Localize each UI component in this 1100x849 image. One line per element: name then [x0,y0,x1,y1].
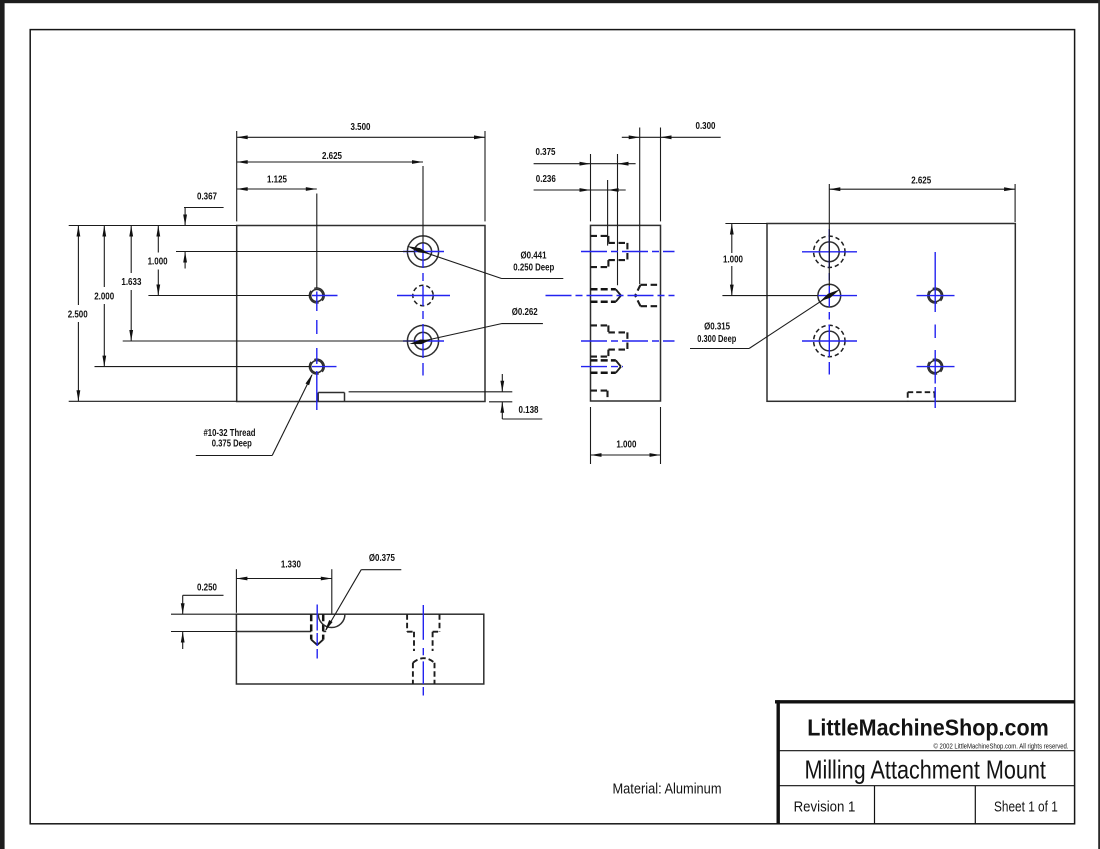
extension line 2.625 right edge (back) [1014,184,1016,222]
dimension 0.236 side [534,174,626,192]
centerline C1R2 horizontal [818,295,857,297]
centerline column A vertical [316,292,318,411]
extension line side left edge [590,154,592,221]
leader Ø0.315 [690,289,840,348]
centerline A4 horizontal [312,366,337,368]
counterbore hole B3 (front) [407,325,438,356]
extension line back top edge [725,223,767,225]
extension line 3.500 left [236,131,238,221]
page top black bar [0,0,1100,3]
svg-text:1.000: 1.000 [616,440,636,451]
leader Ø0.441 [407,246,563,279]
step edge line (bottom view) [236,631,326,633]
svg-text:Material: Aluminum: Material: Aluminum [613,782,722,798]
extension line row3 [123,340,415,342]
dimension 1.125 [237,175,317,191]
svg-text:Revision 1: Revision 1 [794,800,856,816]
svg-text:0.375: 0.375 [536,147,556,158]
svg-text:Sheet 1 of 1: Sheet 1 of 1 [994,800,1058,816]
svg-text:2.000: 2.000 [94,291,114,302]
extension line 1.330 right [331,569,333,614]
dimension 1.330 [236,560,331,581]
extension line 1.125 col A [316,194,318,289]
title block cell divider a [874,786,876,824]
extension line 0.250 top [171,613,236,615]
svg-text:1.330: 1.330 [281,560,301,571]
dimension 1.000 side [591,407,661,464]
svg-text:1.125: 1.125 [267,175,287,186]
centerline C2R2 horizontal [917,295,955,297]
extension line 0.250 step [171,631,236,633]
threaded hole C2R4 back [929,361,941,373]
svg-text:0.375 Deep: 0.375 Deep [212,439,252,450]
svg-text:1.633: 1.633 [121,277,141,288]
extension line bottom edge left [69,400,237,402]
bottom view outline [236,614,483,684]
leader Ø0.262 [409,307,543,344]
svg-text:0.138: 0.138 [519,405,539,416]
dimension 0.250 [181,583,224,650]
extension line row2 [148,295,310,297]
hidden step box (back) [908,392,935,401]
centerline C2R4 horizontal [917,366,955,368]
dimension 0.367 [183,191,223,268]
centerline side row2 [546,295,675,297]
threaded hole A2 (front) [311,289,323,301]
centerline C1R3 horizontal [802,340,857,342]
svg-text:1.000: 1.000 [148,257,168,268]
extension line top edge left [69,225,237,227]
svg-text:3.500: 3.500 [351,122,371,133]
centerline C1R1 horizontal [802,251,857,253]
centerline B3 horizontal [403,340,444,342]
centerline bottom colA vertical [316,605,318,659]
svg-text:1.000: 1.000 [723,255,743,266]
dimension 1.000 front [148,226,168,296]
hidden hole B2 dashed circle (front) [413,285,433,305]
svg-text:© 2002 LittleMachineShop.com.: © 2002 LittleMachineShop.com. All rights… [934,741,1069,750]
hidden counterbore row1 (side) [591,236,628,267]
extension line row1 [176,251,414,253]
hidden back hole row2 (side) [635,285,660,306]
svg-text:0.250 Deep: 0.250 Deep [513,262,554,273]
extension line 2.625 col1 (back) [828,184,830,286]
page left black bar [0,0,5,849]
hidden counterbore (bottom view) [407,614,439,651]
extension line back row2 [722,295,817,297]
svg-text:Ø0.441: Ø0.441 [521,251,547,262]
back view outline [767,224,1015,402]
title block divider 2 [778,785,1075,787]
centerline back col1 vertical [828,229,830,375]
dimension 2.500 [68,226,88,402]
svg-text:LittleMachineShop.com: LittleMachineShop.com [807,715,1049,741]
side view outline [591,225,661,401]
title block cell divider b [974,786,976,824]
svg-text:2.500: 2.500 [68,310,88,321]
centerline B1 horizontal [403,251,444,253]
dimension 1.000 back [723,224,743,296]
centerline bottom colB vertical [422,605,424,696]
svg-text:Ø0.262: Ø0.262 [512,307,538,318]
half hole Ø0.375 (bottom view) [318,614,345,627]
dimension 2.625 back [829,175,1015,191]
hidden threaded hole row4 (side) [591,360,621,372]
dimension 1.633 [121,226,141,342]
threaded hole C2R2 back [929,290,941,302]
svg-text:Ø0.375: Ø0.375 [369,553,395,564]
hole C1R1 back [814,236,845,267]
svg-text:Ø0.315: Ø0.315 [704,322,730,333]
centerline side row4 [581,366,623,368]
svg-text:2.625: 2.625 [322,151,342,162]
front view bottom notch [318,393,344,402]
dimension 2.625 [237,151,423,164]
extension line 1.330 left [235,569,237,613]
extension line 2.625 col B [422,166,424,243]
hidden bottom step (side) [591,391,608,401]
hole C1R2 back [818,284,841,307]
hole C1R3 back [814,325,845,356]
centerline side row3 [581,340,675,342]
svg-text:0.300 Deep: 0.300 Deep [697,334,736,345]
svg-text:#10-32 Thread: #10-32 Thread [204,428,256,439]
centerline A2 horizontal [312,295,338,297]
svg-text:0.367: 0.367 [197,191,217,202]
centerline side row1 [581,251,675,253]
extension line 0.236 feature [607,180,609,246]
centerline B2 horizontal [397,295,450,297]
extension line side right edge [660,128,662,222]
extension line 3.500 right [484,131,486,221]
hidden threaded hole (bottom view) [311,614,323,645]
hidden threaded hole row2 (side) [591,289,621,301]
extension line 0.375 feature [617,154,619,285]
dimension 0.300 side [622,121,721,139]
page right black bar [1098,0,1100,849]
hidden counterbore row3 (side) [591,325,628,356]
leader Ø0.375 [325,553,402,631]
svg-text:0.236: 0.236 [536,174,556,185]
title block thick left border [777,700,780,824]
centerline back col2 vertical [934,252,936,408]
dimension 2.000 [94,226,114,367]
counterbore hole B1 (front) [407,236,438,267]
dimension 0.375 side [534,147,636,166]
front view plate outline [237,226,485,402]
centerline column B vertical [422,244,424,376]
svg-text:2.625: 2.625 [911,175,931,186]
svg-text:Milling Attachment Mount: Milling Attachment Mount [804,755,1046,785]
svg-text:0.250: 0.250 [197,583,217,594]
threaded hole A4 (front) [311,361,323,373]
title block thick top border [775,700,1075,703]
dimension 3.500 [237,122,485,139]
hidden back hole (bottom view) [413,658,435,684]
extension line row4 [95,366,311,368]
svg-text:0.300: 0.300 [696,121,716,132]
leader #10-32 thread [196,374,313,456]
dimension 0.138 [349,374,543,419]
extension line 0.300 feature [639,128,641,285]
title block divider 1 [778,750,1075,752]
